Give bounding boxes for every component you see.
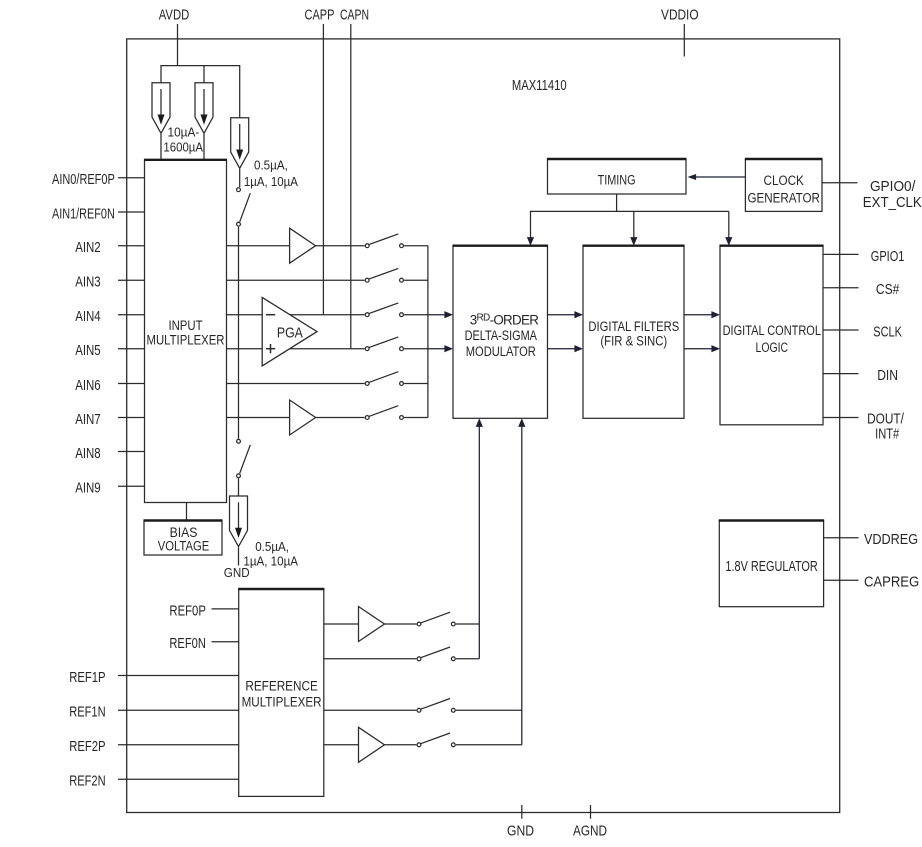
buffer A3 ref row A <box>359 607 385 642</box>
wire I3 to switch <box>239 169 241 187</box>
wire CAPREG <box>824 579 859 581</box>
wire I1 to mux <box>160 134 162 160</box>
wire modulator to filters B <box>548 348 576 350</box>
svg-text:REF0P: REF0P <box>169 603 206 619</box>
svg-text:1600µA: 1600µA <box>163 140 203 154</box>
svg-text:AIN1/REF0N: AIN1/REF0N <box>52 206 115 222</box>
svg-text:CLOCK: CLOCK <box>764 173 804 188</box>
svg-text:MAX11410: MAX11410 <box>512 78 567 94</box>
block timing <box>547 159 687 194</box>
svg-text:AIN5: AIN5 <box>75 343 101 359</box>
svg-text:VOLTAGE: VOLTAGE <box>158 539 210 554</box>
wire row4 to collector <box>404 348 428 350</box>
wire bias vertical <box>238 227 240 439</box>
wire AIN5 <box>118 348 145 350</box>
current source I4 burnout bottom <box>230 496 248 547</box>
wire GPIO0/EXT_CLK <box>822 182 857 184</box>
wire timing to filters <box>633 211 635 237</box>
wire REF1P <box>118 675 239 677</box>
wire DIN <box>823 373 859 375</box>
wire row1 to collector <box>404 245 428 247</box>
svg-text:AIN7: AIN7 <box>75 412 101 428</box>
wire refrowB from mux <box>324 658 417 660</box>
wire DOUT/INT# <box>823 417 859 419</box>
svg-text:GND: GND <box>507 824 534 840</box>
switch S6 <box>365 406 403 420</box>
pin AGND <box>590 805 592 819</box>
wire AVDD down <box>177 24 179 66</box>
buffer A4 ref row D <box>359 727 385 762</box>
svg-text:REF1N: REF1N <box>69 705 105 721</box>
wire AVDD branch <box>161 65 240 67</box>
svg-text:DELTA-SIGMA: DELTA-SIGMA <box>465 328 537 343</box>
svg-text:AIN3: AIN3 <box>75 275 101 291</box>
wire ref collector 2 to modulator <box>521 426 523 745</box>
svg-text:DIGITAL FILTERS: DIGITAL FILTERS <box>588 319 679 334</box>
wire refrowA from mux <box>324 623 417 625</box>
buffer A1 row AIN2 <box>290 228 316 263</box>
svg-text:CAPN: CAPN <box>340 8 369 24</box>
wire row3 from mux <box>227 314 365 316</box>
block reference multiplexer <box>238 589 324 796</box>
svg-text:MULTIPLEXER: MULTIPLEXER <box>147 332 225 347</box>
svg-text:REF1P: REF1P <box>69 670 105 686</box>
wire AIN7 <box>118 417 145 419</box>
svg-text:LOGIC: LOGIC <box>756 340 789 355</box>
buffer A2 row AIN7 <box>290 400 316 435</box>
block 1.8V regulator <box>719 521 824 607</box>
wire row1 from mux <box>227 245 365 247</box>
block bias voltage <box>144 521 223 556</box>
wire collector vertical <box>427 246 429 418</box>
wire row5 to collector <box>404 383 428 385</box>
wire mux to bias voltage <box>186 503 188 521</box>
wire AIN2 <box>118 245 145 247</box>
wire AIN0/REF0P <box>118 177 145 179</box>
svg-text:CAPREG: CAPREG <box>864 575 919 591</box>
svg-text:PGA: PGA <box>277 325 303 341</box>
wire refrowC to collector <box>456 709 522 711</box>
wire VDDREG <box>824 537 859 539</box>
switch SR4 <box>417 733 455 747</box>
wire AIN4 <box>118 314 145 316</box>
svg-text:AIN2: AIN2 <box>75 240 101 256</box>
svg-text:0.5µA,: 0.5µA, <box>255 540 289 554</box>
switch S1 <box>365 234 403 248</box>
block input multiplexer <box>144 160 227 503</box>
svg-text:DIGITAL CONTROL: DIGITAL CONTROL <box>723 323 821 338</box>
wire REF0P <box>212 608 239 610</box>
wire clock generator to timing <box>694 176 745 178</box>
wire row2 to collector <box>404 279 428 281</box>
wire PGA out+ to modulator <box>428 314 445 316</box>
svg-text:GPIO0/: GPIO0/ <box>870 179 916 195</box>
wire REF0N <box>212 641 239 643</box>
block digital filters <box>583 246 685 419</box>
svg-text:AIN0/REF0P: AIN0/REF0P <box>52 172 115 188</box>
svg-text:REF0N: REF0N <box>169 636 206 652</box>
svg-text:SCLK: SCLK <box>873 324 902 340</box>
block clock generator <box>745 159 823 211</box>
svg-text:AIN4: AIN4 <box>75 309 101 325</box>
svg-text:GND: GND <box>224 565 250 580</box>
wire row3 to collector <box>404 314 428 316</box>
wire CAPN vertical <box>350 24 352 349</box>
PGA minus input symbol <box>266 314 275 316</box>
current source I1 10uA-1600uA <box>152 83 170 134</box>
wire I2 to mux <box>203 134 205 160</box>
wire REF1N <box>118 709 239 711</box>
wire REF2N <box>118 778 239 780</box>
svg-text:GPIO1: GPIO1 <box>871 249 905 265</box>
svg-text:MODULATOR: MODULATOR <box>466 344 536 359</box>
switch S4 <box>365 337 403 351</box>
wire to burnout bottom source <box>238 478 240 496</box>
wire AIN3 <box>118 279 145 281</box>
svg-text:INPUT: INPUT <box>168 318 202 333</box>
svg-text:1µA, 10µA: 1µA, 10µA <box>243 555 298 569</box>
wire filters to control A <box>684 314 713 316</box>
wire refrowD to collector <box>456 744 522 746</box>
chip boundary MAX11410 <box>127 39 840 813</box>
svg-text:AGND: AGND <box>573 824 607 840</box>
svg-text:REFERENCE: REFERENCE <box>245 679 318 694</box>
wire AIN1/REF0N <box>118 211 145 213</box>
svg-text:AIN8: AIN8 <box>75 446 101 462</box>
wire timing to control logic <box>728 211 730 237</box>
svg-text:10µA-: 10µA- <box>168 126 200 140</box>
pin GND <box>521 805 523 819</box>
svg-text:EXT_CLK: EXT_CLK <box>863 195 922 211</box>
svg-text:1µA, 10µA: 1µA, 10µA <box>244 175 299 189</box>
switch SR1 <box>417 612 455 626</box>
switch S_bias_top <box>237 188 251 226</box>
svg-text:VDDREG: VDDREG <box>864 532 918 548</box>
block digital control logic <box>720 246 824 425</box>
svg-text:1.8V REGULATOR: 1.8V REGULATOR <box>725 559 817 575</box>
wire modulator to filters A <box>548 314 576 316</box>
wire I4 to GND <box>238 547 240 565</box>
svg-text:INT#: INT# <box>875 427 899 443</box>
wire row5 from mux <box>227 383 365 385</box>
svg-text:REF2P: REF2P <box>69 739 105 755</box>
switch SR2 <box>417 647 455 661</box>
svg-text:REF2N: REF2N <box>69 774 105 790</box>
PGA plus input symbol <box>266 348 275 350</box>
svg-text:TIMING: TIMING <box>598 172 636 187</box>
wire row4 from mux <box>227 348 365 350</box>
svg-text:CAPP: CAPP <box>305 8 335 24</box>
op-amp PGA <box>262 297 317 366</box>
wire timing distribution <box>616 194 618 211</box>
wire SCLK <box>823 329 859 331</box>
wire row2 from mux <box>227 279 365 281</box>
switch SR3 <box>417 699 455 713</box>
wire timing to modulator <box>530 211 532 238</box>
svg-text:0.5µA,: 0.5µA, <box>254 159 288 173</box>
wire filters to control B <box>684 348 713 350</box>
svg-text:AIN9: AIN9 <box>75 481 101 497</box>
svg-text:DOUT/: DOUT/ <box>867 412 905 428</box>
svg-text:GENERATOR: GENERATOR <box>747 190 820 205</box>
wire ref collector 1 to modulator <box>478 426 480 659</box>
wire REF2P <box>118 744 239 746</box>
svg-text:(FIR & SINC): (FIR & SINC) <box>600 334 667 349</box>
svg-text:CS#: CS# <box>876 282 899 298</box>
switch S2 <box>365 268 403 282</box>
wire row6 to collector <box>404 417 428 419</box>
switch S5 <box>365 372 403 386</box>
svg-text:MULTIPLEXER: MULTIPLEXER <box>242 695 322 710</box>
switch S3 <box>365 303 403 317</box>
wire AIN8 <box>118 451 145 453</box>
wire CS# <box>823 287 859 289</box>
svg-text:VDDIO: VDDIO <box>661 8 699 24</box>
wire refrowD from mux <box>324 744 417 746</box>
svg-text:DIN: DIN <box>877 368 898 384</box>
wire AIN6 <box>118 383 145 385</box>
wire row6 from mux <box>227 417 365 419</box>
wire refrowC from mux <box>324 709 417 711</box>
wire PGA out- to modulator <box>428 348 445 350</box>
wire AIN9 <box>118 485 145 487</box>
svg-text:AVDD: AVDD <box>159 8 190 24</box>
wire refrowB to collector <box>456 658 479 660</box>
current source I2 10uA-1600uA <box>195 83 213 134</box>
wire VDDIO stub <box>683 24 685 57</box>
current source I3 burnout top <box>231 118 249 169</box>
switch S_bias_bottom <box>237 439 251 477</box>
wire refrowA to collector <box>456 623 479 625</box>
wire CAPP vertical <box>322 24 324 315</box>
wire GPIO1 <box>823 253 859 255</box>
svg-text:AIN6: AIN6 <box>75 378 101 394</box>
block 3rd-order delta-sigma modulator <box>453 246 549 419</box>
